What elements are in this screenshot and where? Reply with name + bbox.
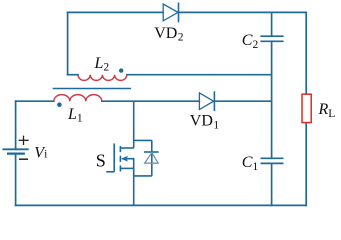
diode VD2 bbox=[163, 3, 178, 23]
channel bar top bbox=[119, 146, 121, 152]
wire: C column bottom segment bbox=[271, 163, 273, 205]
wire: L1 row coil to VD1 bbox=[102, 100, 200, 102]
channel bar middle bbox=[119, 156, 121, 162]
capacitor C1 bbox=[261, 158, 284, 163]
battery Vi bbox=[3, 149, 29, 153]
transformer core bar bbox=[53, 88, 131, 90]
wire: left vertical above battery bbox=[15, 101, 17, 149]
channel bar bottom bbox=[119, 165, 121, 171]
wire: top wire right segment after VD2 bbox=[179, 11, 307, 13]
node dot L1 polarity bbox=[57, 102, 62, 107]
drain horizontal bbox=[121, 147, 134, 149]
wire: L2 row from coil to C column bbox=[127, 74, 272, 76]
cathode bar of body diode bbox=[144, 151, 159, 153]
diode VD1 bbox=[199, 91, 214, 111]
arrow on MOSFET body bbox=[121, 156, 128, 162]
inductor L2 (scallops hang below the wire) bbox=[78, 75, 127, 81]
wire: right outer vertical lower bbox=[305, 123, 307, 206]
wire: VD1 to C column bbox=[214, 100, 271, 102]
wire: L1 row left segment bbox=[16, 100, 54, 102]
transistor S (MOSFET) bbox=[106, 101, 133, 205]
wire: body diode top connector bbox=[134, 139, 152, 141]
wire: diode column through bbox=[151, 140, 153, 176]
node dot L2 polarity bbox=[119, 68, 123, 72]
source horizontal bbox=[121, 167, 134, 169]
battery minus sign bbox=[19, 158, 28, 160]
wire: drain vertical from L1 row bbox=[133, 101, 135, 148]
body diode of S bbox=[134, 140, 159, 176]
body diode triangle bbox=[145, 153, 159, 164]
gate plate bbox=[113, 143, 115, 171]
battery plus sign bbox=[19, 136, 29, 145]
wire: bottom wire bbox=[16, 204, 307, 206]
wire: source vertical to bottom bbox=[133, 168, 135, 205]
wire: body diode bottom connector bbox=[134, 175, 152, 177]
body connection line with arrow bbox=[127, 159, 134, 169]
wire: top wire left segment bbox=[68, 11, 163, 13]
inductor L1 (humps rise above the wire) bbox=[54, 95, 102, 102]
svg-text:S: S bbox=[96, 150, 106, 170]
wire: C column top segment bbox=[271, 12, 273, 36]
wire: L2 loop left vertical bbox=[67, 12, 69, 74]
capacitor C2 bbox=[260, 36, 283, 41]
wire: left vertical below battery bbox=[15, 154, 17, 206]
wire: C column middle segment bbox=[271, 41, 273, 158]
wire: right outer vertical upper bbox=[305, 12, 307, 94]
resistor RL bbox=[302, 94, 311, 122]
gate lead bbox=[106, 171, 114, 173]
wire: L2 row left stub bbox=[68, 74, 78, 76]
